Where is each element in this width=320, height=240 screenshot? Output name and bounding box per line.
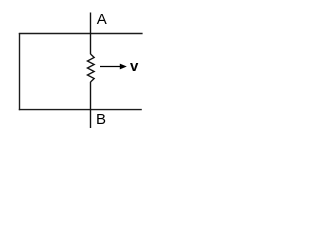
wire top edge of loop [19,33,143,35]
wire left edge of loop [19,33,21,110]
wire vertical branch bottom (terminal B lead) [90,82,92,128]
voltage arrow v (head) [120,64,127,70]
svg-text:B: B [96,111,106,128]
svg-text:A: A [97,11,107,28]
wire bottom edge of loop [19,109,142,111]
voltage arrow v (shaft) [100,66,121,68]
resistor R (zigzag) [87,54,94,82]
svg-text:v: v [130,58,139,75]
wire vertical branch top (terminal A lead) [90,13,92,55]
